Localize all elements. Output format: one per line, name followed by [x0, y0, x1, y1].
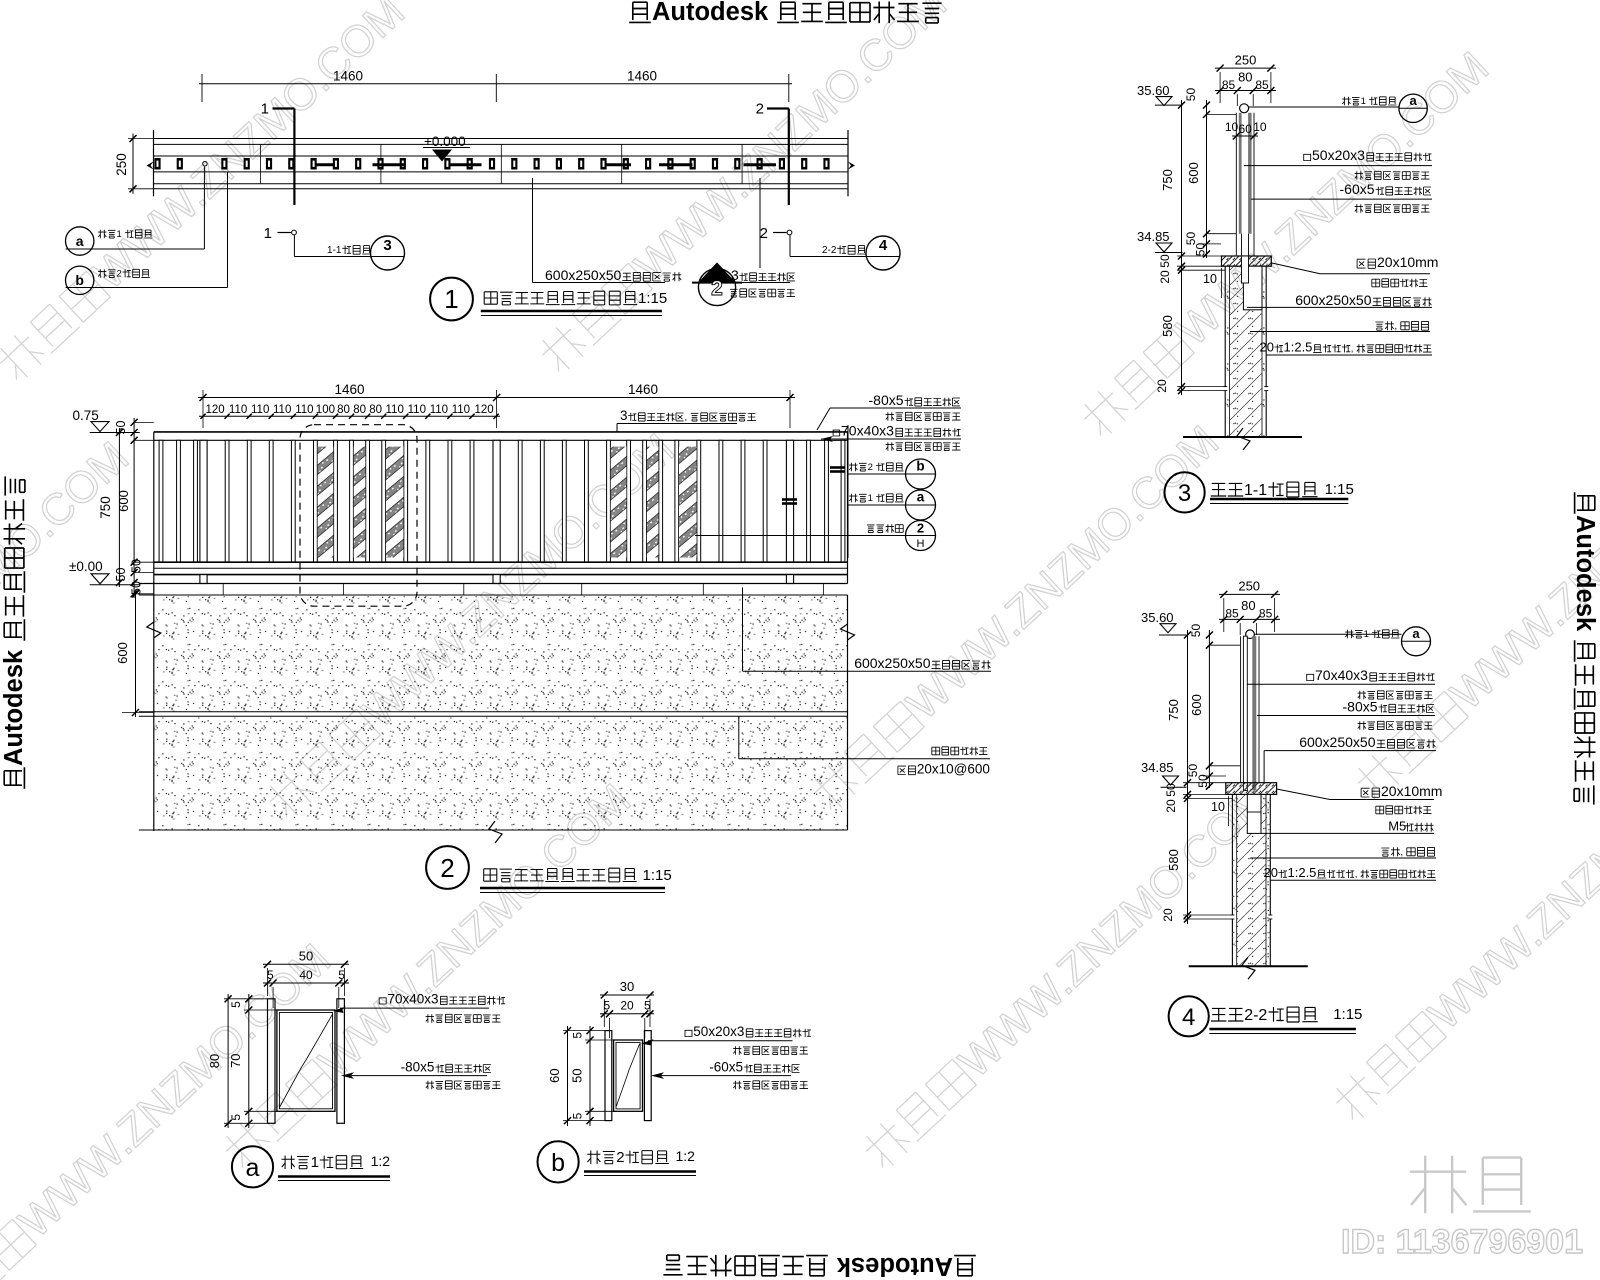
svg-text:2: 2 [917, 521, 924, 536]
plan leader anchor circle on strip [203, 162, 207, 166]
svg-text:250: 250 [114, 153, 129, 176]
svg-text:110: 110 [452, 404, 470, 416]
svg-text:250: 250 [1238, 579, 1260, 594]
svg-text:1-1: 1-1 [1244, 482, 1267, 499]
elevation steel column 2 cut mark [830, 466, 845, 469]
svg-text:,: , [1394, 321, 1397, 332]
elevation right earth edge [847, 595, 849, 830]
sec1 post top circle [1240, 104, 1249, 113]
watermark band bottom-middle-right [855, 775, 1280, 1176]
sec2 post top circle [1246, 630, 1255, 639]
det-b tube diagonal break line [616, 1044, 639, 1106]
svg-text:110: 110 [408, 404, 426, 416]
elevation ground bottom line [139, 829, 848, 831]
sec1 wall plaster lines [1229, 266, 1231, 437]
svg-text:40: 40 [299, 968, 313, 982]
sec1 label 50x20x3 tube [1304, 154, 1311, 160]
sec1 title text [1211, 483, 1226, 496]
sec1 bubble a steel column 1 [1249, 106, 1399, 108]
svg-text:2: 2 [760, 225, 768, 242]
svg-text:80: 80 [369, 404, 382, 416]
border text top [629, 0, 941, 26]
det-b dimension 30 [600, 994, 654, 996]
det-b title bubble b [538, 1141, 579, 1182]
svg-text:85: 85 [1222, 78, 1236, 92]
watermark band mid-left-edge [0, 433, 138, 834]
elevation title bubble 2 [426, 846, 469, 889]
sec1 wall concrete hatch [1230, 266, 1263, 437]
sec2 wall concrete hatch [1237, 794, 1266, 966]
plan detail bubble 3 [371, 236, 405, 270]
sec2 title underline [1209, 1028, 1356, 1031]
svg-text:120: 120 [475, 404, 494, 416]
elevation top rail [154, 431, 848, 433]
svg-text:250: 250 [1235, 53, 1257, 68]
det-a right flat plate -80x5 [337, 999, 345, 1124]
det-b right flat plate -60x5 [644, 1031, 651, 1121]
svg-text:80: 80 [337, 404, 350, 416]
svg-text:1: 1 [868, 493, 873, 504]
svg-text:±0.00: ±0.00 [69, 559, 103, 574]
svg-text:110: 110 [295, 404, 313, 416]
svg-text:50: 50 [299, 949, 313, 964]
elevation right leader spine [847, 425, 849, 558]
sec2 label structure [1381, 848, 1389, 856]
svg-text:20x10mm: 20x10mm [1377, 254, 1438, 270]
svg-text:1:2: 1:2 [371, 1153, 391, 1169]
plan strip left break arrow [147, 162, 154, 170]
sec1 post embedded anchor [1242, 256, 1249, 283]
svg-text:110: 110 [229, 404, 247, 416]
plan railing posts (steel balusters) [154, 158, 829, 170]
svg-text:10: 10 [1211, 800, 1225, 814]
sec2 title bubble 4 [1169, 996, 1209, 1036]
svg-text:600: 600 [1186, 162, 1201, 184]
svg-text:20: 20 [1264, 865, 1278, 880]
svg-text:600x250x50: 600x250x50 [854, 655, 931, 671]
plan title text [484, 292, 497, 304]
svg-text:1: 1 [1364, 629, 1369, 640]
elevation stone coping band [139, 583, 848, 585]
det-b left flat plate -60x5 [605, 1031, 612, 1121]
svg-text:60: 60 [547, 1068, 562, 1082]
det-a label 70x40x3 tube [379, 998, 386, 1004]
elevation bubble a with label [848, 504, 936, 506]
det-a dimension 5/40/5 [263, 982, 349, 984]
sec2 wall plaster lines [1236, 794, 1238, 966]
sec1 post plate left [1239, 113, 1242, 234]
det-b label 50x20x3 tube [685, 1030, 692, 1036]
svg-text:M5: M5 [1388, 819, 1406, 834]
svg-text:20: 20 [1155, 379, 1169, 393]
sec2 ground line [1189, 965, 1308, 967]
elevation ground stipple lower block [154, 718, 848, 831]
svg-text:a: a [917, 490, 925, 505]
det-a title underline [278, 1175, 390, 1177]
svg-text:+0.000: +0.000 [424, 134, 466, 149]
svg-text:34.85: 34.85 [1141, 760, 1174, 775]
svg-text:85: 85 [1259, 607, 1273, 621]
svg-text:600x250x50: 600x250x50 [1295, 292, 1372, 308]
sec1 stone block 600x250x50 outline [1243, 266, 1262, 310]
svg-text:110: 110 [430, 404, 448, 416]
svg-text:1: 1 [117, 229, 122, 240]
svg-text:,: , [1355, 869, 1358, 880]
svg-text:10: 10 [1253, 120, 1267, 134]
svg-text:35.60: 35.60 [1141, 610, 1174, 625]
elevation label stone paint + groove [738, 716, 740, 759]
svg-text:50: 50 [114, 421, 128, 435]
sec1 post anchor lines [1241, 234, 1243, 256]
plan north-ish marker 2 emblem [692, 282, 742, 284]
svg-text:20: 20 [1260, 340, 1274, 355]
svg-text:1460: 1460 [334, 382, 364, 397]
svg-text:Autodesk: Autodesk [652, 0, 769, 26]
sec2 post tube wall (hollow) [1243, 636, 1247, 790]
plan title underline [481, 310, 662, 313]
svg-text:2: 2 [440, 853, 454, 883]
svg-text:2: 2 [117, 269, 122, 280]
svg-text:35.60: 35.60 [1137, 83, 1170, 98]
plan detail bubble 4 [866, 236, 900, 270]
plan section cut line 2-2 top [788, 109, 790, 206]
svg-text:600x250x50: 600x250x50 [1299, 734, 1376, 750]
svg-text:50x20x3: 50x20x3 [693, 1024, 744, 1039]
elevation dim 600 (ground depth) [135, 594, 137, 717]
det-b title text [587, 1151, 600, 1165]
elevation sub-dimension line 120-110-..-120 [199, 415, 500, 417]
svg-text:50: 50 [1194, 243, 1208, 257]
svg-text:2-2: 2-2 [1244, 1007, 1267, 1024]
svg-text:600x250x50: 600x250x50 [545, 267, 622, 283]
svg-text:2: 2 [756, 101, 764, 118]
svg-text:600: 600 [116, 490, 131, 512]
svg-text:a: a [76, 233, 84, 249]
sec1 dimension 10/60/10 [1232, 135, 1258, 137]
elevation decorative iron panels (hatched) [318, 447, 334, 558]
watermark band top-middle [531, 0, 956, 380]
svg-text:1:2: 1:2 [676, 1148, 696, 1164]
svg-text:,: , [1351, 344, 1354, 355]
svg-text:0.75: 0.75 [73, 408, 99, 423]
plan dimension line 1460+1460 [199, 83, 792, 85]
svg-text:5: 5 [229, 1114, 243, 1121]
sec2 wall outer faces [1231, 794, 1233, 966]
plan leader from bubble b to post [66, 287, 228, 289]
svg-text:-60x5: -60x5 [709, 1060, 743, 1075]
border text right (rotated 90) [1571, 492, 1599, 804]
elevation label 600x250x50 granite [742, 588, 744, 672]
svg-text:b: b [551, 1149, 565, 1177]
svg-text:70x40x3: 70x40x3 [1315, 667, 1368, 683]
sec2 title text [1211, 1008, 1226, 1021]
sec1 dimension 250 [1215, 67, 1276, 69]
sec2 secondary dim chain 50/600/50/50 [1208, 630, 1210, 788]
det-b dim 5/50/5 chain [589, 1026, 591, 1126]
sec1 label structure [1375, 322, 1383, 330]
svg-text:,: , [1400, 847, 1403, 858]
det-b rect tube 50x20 outer [614, 1040, 643, 1111]
elevation dimension line 1460+1460 (top) [198, 397, 795, 399]
plan title bubble 1 [430, 278, 473, 321]
sec1 main dim chain 750/50/20/580/20 [1181, 100, 1183, 395]
sec2 wall notches [1230, 915, 1234, 919]
svg-text:,: , [685, 412, 688, 423]
watermark band right-edge [1347, 407, 1600, 808]
svg-text:580: 580 [1160, 315, 1175, 337]
det-a dimension 50 [263, 963, 349, 965]
sec1 post outer faces [1235, 113, 1237, 256]
det-a title bubble a [232, 1146, 273, 1187]
svg-text:80: 80 [1238, 70, 1252, 85]
svg-text:20x10mm: 20x10mm [1381, 783, 1442, 799]
svg-text:ID: 1136796901: ID: 1136796901 [1341, 1223, 1583, 1261]
sec2 wall plaster dotted strips [1232, 794, 1236, 966]
svg-text:1: 1 [264, 225, 272, 242]
sec2 bubble a steel column 1 [1255, 633, 1402, 635]
plan steel column 2 reference bubble b [66, 266, 94, 294]
plan strip left edge [153, 130, 155, 196]
svg-text:600: 600 [1189, 694, 1204, 716]
svg-text:3: 3 [620, 408, 628, 423]
watermark band bottom-middle-left [215, 775, 640, 1176]
svg-text:5: 5 [571, 1032, 585, 1039]
svg-text:50: 50 [114, 568, 128, 582]
det-a rect tube 70x40 outer [277, 1010, 335, 1111]
sec2 main dim chain 750/50/20/580/20 [1187, 630, 1189, 924]
svg-text:1:15: 1:15 [643, 867, 672, 884]
svg-text:1460: 1460 [628, 382, 658, 397]
svg-text:Autodesk: Autodesk [0, 649, 28, 766]
svg-text:-80x5: -80x5 [869, 392, 904, 408]
sec2 dimension 250 [1219, 593, 1280, 595]
sec1 dimension 85/80/85 [1215, 90, 1276, 92]
svg-text:5: 5 [267, 968, 274, 982]
plan dimension 250 (left) [132, 134, 134, 194]
svg-text:2: 2 [711, 277, 723, 300]
det-b dim 60 (left) [567, 1026, 569, 1126]
elevation left earth edge [153, 584, 155, 832]
elevation dim line 750 [118, 428, 120, 587]
svg-text:600: 600 [115, 642, 130, 664]
svg-text:5: 5 [571, 1112, 585, 1119]
svg-text:30: 30 [620, 979, 634, 994]
plan leader from bubble a to post [66, 248, 205, 250]
svg-text:a: a [246, 1154, 260, 1182]
svg-text:70: 70 [228, 1053, 243, 1067]
sec1 label groove 20x10 [1357, 259, 1365, 268]
svg-text:2: 2 [868, 462, 873, 473]
elevation bottom rail [154, 561, 848, 563]
elevation post feet [200, 575, 207, 584]
det-a title text [282, 1156, 295, 1170]
plan section 2-2 leader to bubble 4 [789, 235, 791, 257]
svg-text:750: 750 [1160, 169, 1175, 191]
sec2 label groove 20x10 [1361, 788, 1369, 797]
svg-text:3: 3 [383, 237, 391, 254]
svg-text:50: 50 [570, 1068, 585, 1082]
svg-text:60: 60 [1239, 122, 1253, 136]
plan section 1-1 leader to bubble 3 [293, 235, 295, 257]
det-b dimension 5/20/5 [600, 1013, 654, 1015]
plan section cut line 1-1 top [293, 109, 295, 206]
sec2 label 70x40x3 tube [1307, 674, 1314, 680]
elevation dim line 50/600/50 chain [133, 418, 135, 598]
znzmo logo [1410, 1156, 1531, 1214]
svg-text:1:2.5: 1:2.5 [1288, 865, 1317, 880]
sec1 wall outer faces [1224, 266, 1226, 437]
svg-text:Autodesk: Autodesk [1571, 515, 1599, 632]
elevation balusters [159, 440, 845, 562]
svg-text:1460: 1460 [333, 69, 363, 84]
sec1 secondary dim chain 50/600/50/50 [1206, 100, 1208, 258]
svg-text:1:15: 1:15 [638, 290, 667, 307]
svg-text:20: 20 [1164, 799, 1178, 813]
svg-text:120: 120 [206, 404, 225, 416]
svg-text:b: b [75, 272, 84, 288]
elevation bubble b with label [848, 473, 936, 475]
svg-text:50: 50 [1158, 254, 1172, 268]
svg-text:H: H [917, 538, 925, 550]
svg-text:10: 10 [1203, 272, 1217, 286]
det-a left flat plate -80x5 [268, 999, 276, 1124]
svg-text:580: 580 [1166, 849, 1181, 871]
sec2 stone coping cap [1226, 783, 1277, 795]
elevation bubble 2/H iron feature [695, 535, 936, 537]
svg-text:20: 20 [620, 999, 634, 1013]
det-a dim 80 (left) [227, 994, 229, 1128]
svg-text:1:15: 1:15 [1325, 481, 1354, 498]
svg-text:50: 50 [130, 559, 144, 573]
svg-text:a: a [1409, 93, 1417, 108]
svg-text:1-1: 1-1 [327, 245, 342, 256]
elevation title underline [480, 887, 665, 890]
plan strip right break arrow [848, 162, 855, 170]
watermark band top-left [0, 0, 414, 388]
sec2 M5 embedded anchor [1247, 794, 1261, 833]
svg-text:1: 1 [444, 284, 458, 314]
elevation steel column 1 cut mark [782, 498, 797, 501]
svg-text:85: 85 [1255, 78, 1269, 92]
watermark band bottom-right [1325, 727, 1600, 1128]
svg-text:4: 4 [1182, 1004, 1195, 1031]
sec2 post plate (gray) [1252, 636, 1256, 790]
svg-text:110: 110 [273, 404, 291, 416]
svg-text:750: 750 [98, 496, 113, 519]
plan wall strip horizontal lines [154, 138, 849, 140]
elevation label 70x40x3 tube [833, 430, 840, 436]
det-a dim 5/70/5 chain [248, 994, 250, 1128]
svg-text:110: 110 [251, 404, 269, 416]
plan strip right edge [847, 130, 849, 196]
elevation soil joint lines [139, 711, 848, 713]
sec1 title bubble 3 [1165, 472, 1205, 512]
svg-text:100: 100 [316, 404, 335, 416]
watermark band mid-right [803, 417, 1228, 818]
svg-text:10: 10 [1225, 120, 1239, 134]
svg-text:50: 50 [1184, 88, 1198, 102]
svg-text:70x40x3: 70x40x3 [841, 423, 894, 439]
watermark band top-right [1073, 43, 1498, 444]
svg-text:1460: 1460 [627, 69, 657, 84]
elevation title text [484, 869, 497, 881]
svg-text:a: a [1412, 626, 1420, 641]
sec2 dimension 85/80/85 [1219, 618, 1280, 620]
svg-text:1:2.5: 1:2.5 [1284, 340, 1313, 355]
svg-text:1: 1 [311, 1154, 319, 1171]
elevation ground stipple upper block [154, 596, 848, 712]
svg-text:750: 750 [1166, 699, 1181, 721]
svg-text:1:15: 1:15 [1333, 1006, 1362, 1023]
svg-text:50: 50 [1189, 624, 1203, 638]
sec1 ground line [1183, 436, 1302, 438]
watermark band mid-left [259, 425, 684, 826]
svg-text:4: 4 [879, 237, 888, 254]
det-b title underline [584, 1170, 696, 1172]
svg-text:20: 20 [1161, 908, 1175, 922]
svg-text:80: 80 [207, 1054, 222, 1068]
svg-text:b: b [916, 459, 924, 474]
sec1 post plate right [1248, 113, 1252, 234]
svg-text:1: 1 [261, 101, 269, 118]
svg-text:-80x5: -80x5 [1343, 699, 1378, 715]
svg-text:70x40x3: 70x40x3 [388, 992, 439, 1007]
svg-text:80: 80 [353, 404, 366, 416]
border text bottom (rotated 180) [663, 1252, 975, 1280]
svg-text:34.85: 34.85 [1137, 229, 1170, 244]
sec1 wall plaster dotted strips [1225, 266, 1229, 437]
sec1 wall notches [1223, 387, 1227, 391]
sec1 title underline [1210, 498, 1348, 501]
det-a rect tube inner wall [279, 1013, 332, 1109]
plan iron feature tie bars [316, 163, 335, 166]
svg-text:85: 85 [1225, 607, 1239, 621]
sec2 post outer faces [1240, 636, 1242, 783]
det-b rect tube inner wall [616, 1042, 640, 1109]
svg-text:2-2: 2-2 [822, 245, 837, 256]
svg-text:-60x5: -60x5 [1340, 181, 1375, 197]
sec1 stone coping cap [1222, 256, 1272, 266]
watermark band bottom-left [0, 935, 340, 1280]
svg-text:20: 20 [1158, 270, 1172, 284]
svg-text:3: 3 [1178, 480, 1191, 507]
border text left (rotated -90) [0, 476, 28, 788]
elevation main posts [200, 440, 207, 562]
svg-text:2: 2 [616, 1149, 624, 1166]
svg-text:5: 5 [229, 1001, 243, 1008]
svg-text:20x10@600: 20x10@600 [917, 762, 990, 777]
svg-text:Autodesk: Autodesk [836, 1252, 953, 1280]
plan steel column 1 reference bubble a [66, 227, 94, 255]
det-a tube diagonal break line [279, 1014, 332, 1108]
svg-text:50x20x3: 50x20x3 [1312, 147, 1365, 163]
svg-text:1: 1 [1361, 96, 1366, 107]
elevation dashed detail callout box [300, 425, 417, 607]
svg-text:-80x5: -80x5 [401, 1060, 435, 1075]
svg-text:110: 110 [386, 404, 404, 416]
svg-text:80: 80 [1241, 598, 1255, 613]
plan stone joint lines [260, 144, 262, 183]
